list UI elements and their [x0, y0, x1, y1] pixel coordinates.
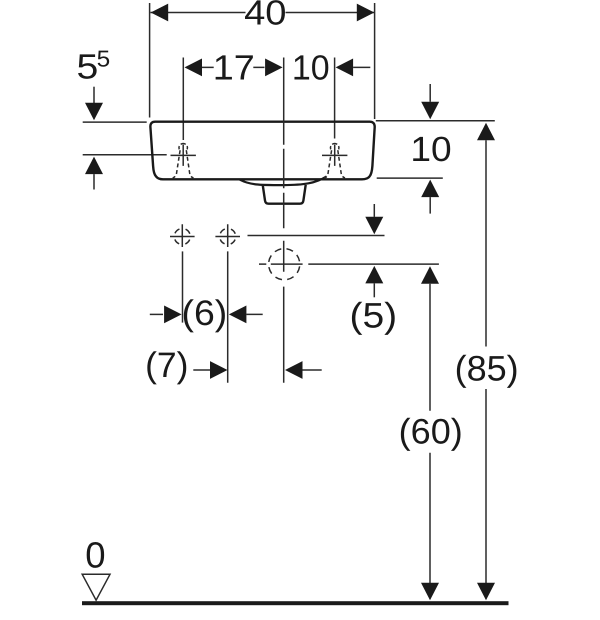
drain circle center reference line: [259, 263, 439, 265]
basin underside dish curve: [240, 176, 327, 185]
dim 85 vertical line with arrows: [477, 123, 495, 141]
basin center line (dash-dot): [283, 58, 285, 383]
dim 5 up arrow: [365, 266, 383, 284]
extension line tap hole 2: [334, 58, 336, 139]
dim 7 right-pointing arrow: [210, 361, 228, 379]
svg-text:17: 17: [213, 49, 255, 88]
tap hole 2 dashed symbol: [324, 144, 345, 178]
svg-text:10: 10: [410, 130, 451, 169]
drain body: [263, 185, 306, 204]
extension line tap hole 1: [182, 58, 184, 141]
extension line right (40): [374, 3, 376, 119]
dim 6 left-pointing arrow: [229, 306, 247, 324]
right 10 down arrow: [429, 84, 431, 102]
svg-text:(60): (60): [399, 411, 463, 451]
5.5 bottom reference line: [83, 154, 167, 156]
svg-text:0: 0: [85, 534, 105, 575]
tap hole 1 cross: [171, 145, 196, 166]
svg-text:(85): (85): [455, 348, 519, 388]
svg-text:10: 10: [292, 49, 330, 88]
dimension 17 right arrow: [265, 59, 283, 77]
fixing hole 2 cross: [215, 224, 240, 247]
dimension 40 line: [151, 12, 375, 14]
right 10 bottom reference line: [377, 177, 443, 179]
dim 6 right-pointing arrow: [164, 306, 182, 324]
dimension 10 top tail: [353, 66, 370, 68]
fixing hole 2 dashed circle: [220, 229, 236, 245]
tap hole 2 cross: [322, 145, 347, 166]
5.5 top reference line: [83, 121, 147, 123]
datum triangle: [82, 574, 110, 600]
dim 6 right tail: [246, 313, 262, 315]
fixing hole 1 dashed circle: [174, 229, 190, 245]
dim 60 vertical line with arrows: [421, 266, 439, 284]
fixing hole 2 tail line: [227, 251, 229, 382]
5.5 up arrow: [85, 157, 103, 175]
dimension 17 line: [202, 66, 265, 68]
fixing hole 1 tail line: [182, 251, 184, 322]
svg-text:(7): (7): [145, 345, 188, 385]
fixing holes reference line: [248, 235, 385, 237]
svg-text:5: 5: [97, 46, 111, 72]
floor line: [82, 601, 509, 605]
right 10 top reference line: [376, 120, 495, 122]
dim 7 right tail: [303, 369, 322, 371]
svg-text:5: 5: [76, 48, 98, 87]
svg-text:(5): (5): [349, 296, 397, 336]
basin outline: [150, 122, 374, 180]
right 10 up arrow: [421, 180, 439, 198]
dimension 10 top arrow: [336, 59, 354, 77]
svg-text:40: 40: [244, 0, 286, 33]
dimension 40 left arrow: [151, 4, 169, 22]
5.5 down arrow: [93, 87, 95, 103]
svg-text:(6): (6): [182, 293, 228, 333]
fixing hole 1 cross: [170, 224, 195, 247]
dim 7 left-pointing arrow: [285, 361, 303, 379]
tap hole 1 dashed symbol: [173, 144, 194, 178]
dimension 17 left arrow: [185, 59, 203, 77]
dimension 40 right arrow: [357, 4, 375, 22]
dim 6 line left tail: [150, 313, 163, 315]
extension line left (40): [149, 3, 151, 118]
dim 5 down arrow: [373, 204, 375, 217]
drain circle dashed: [269, 249, 300, 280]
dim 7 line tail: [193, 369, 210, 371]
